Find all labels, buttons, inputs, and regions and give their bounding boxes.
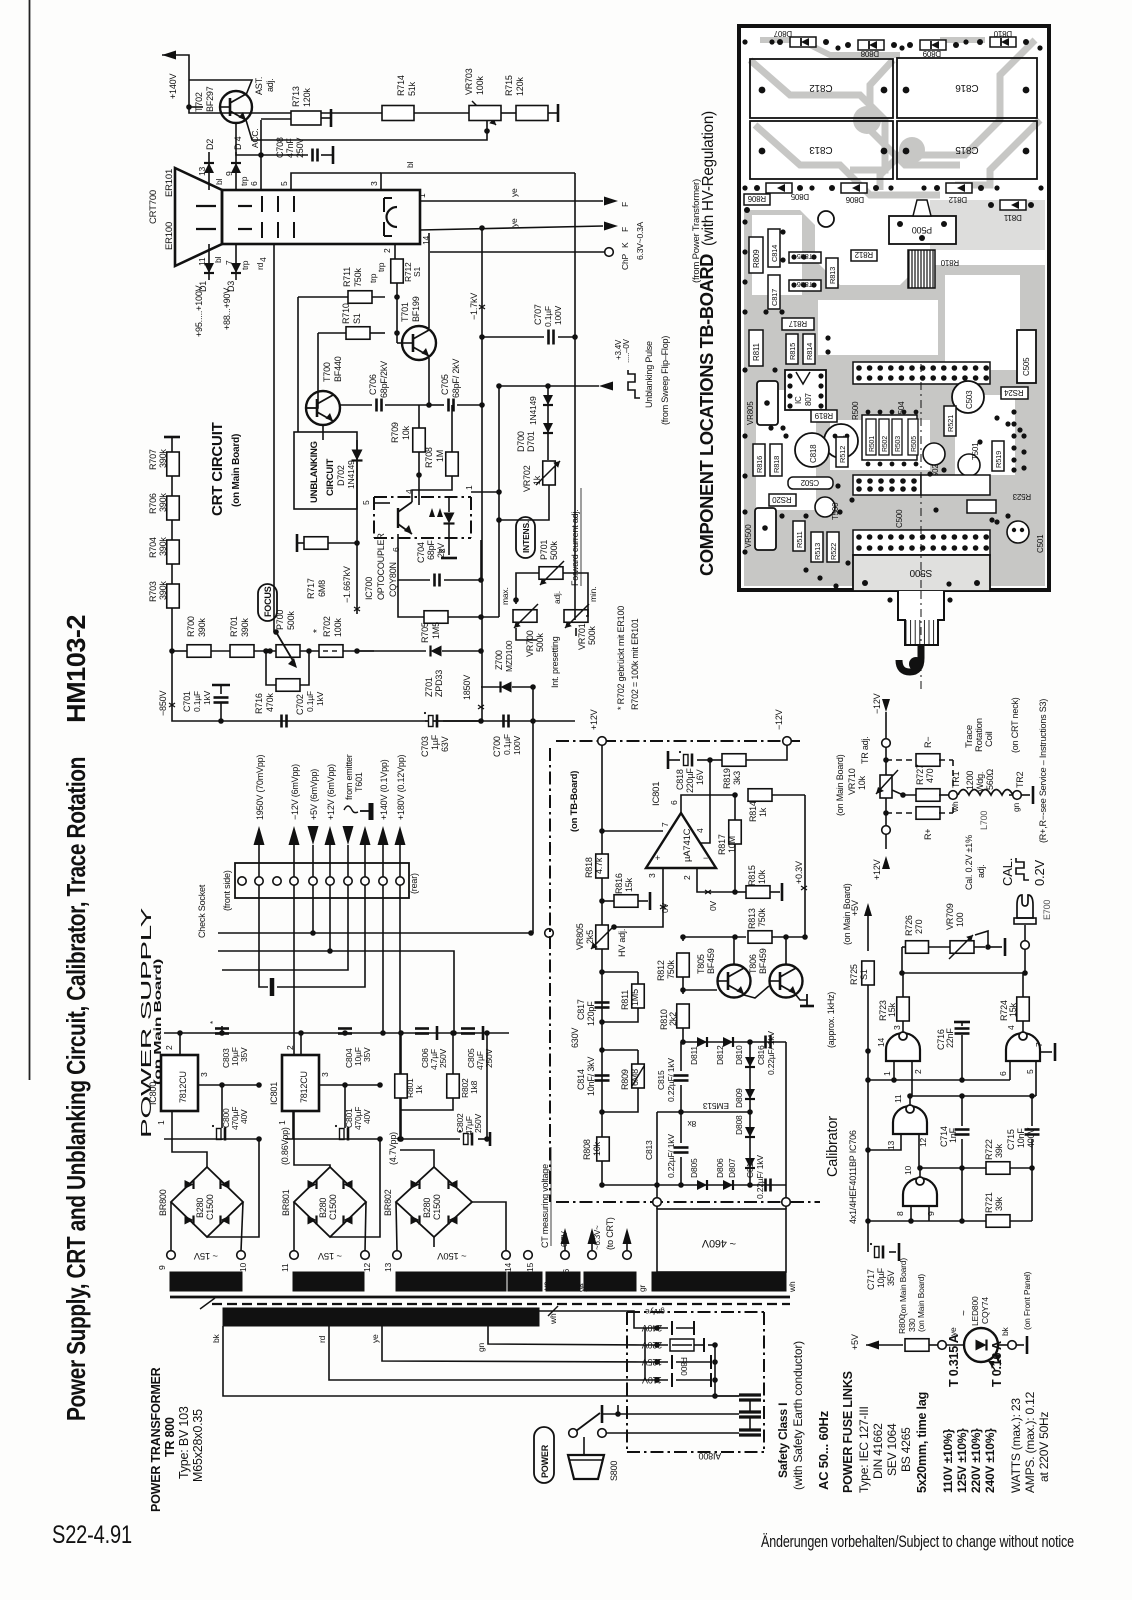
PCB R513	[811, 532, 823, 562]
svg-text:C503: C503	[965, 390, 974, 409]
C813 wire	[656, 1112, 658, 1185]
svg-text:(R+,R−-see Service – Instru: (R+,R−-see Service – Instructions S3)	[1038, 699, 1048, 843]
svg-text:~6.3V~: ~6.3V~	[593, 1225, 602, 1250]
resistor R814	[748, 789, 772, 802]
+12V rail into opamp	[601, 745, 603, 854]
svg-text:R726: R726	[904, 915, 914, 936]
svg-text:0.22µF/ 1kV: 0.22µF/ 1kV	[766, 1031, 776, 1075]
op-amp IC801 triangle	[646, 813, 716, 868]
NAND gate B	[1006, 1033, 1040, 1061]
svg-text:R511: R511	[795, 531, 804, 548]
socket wire +140V down	[382, 885, 384, 1033]
svg-text:3: 3	[369, 181, 379, 186]
PCB white bar right of row2	[921, 475, 990, 495]
capacitor C705	[429, 404, 444, 406]
svg-text:C814: C814	[770, 245, 779, 262]
resistor R701	[211, 650, 230, 652]
svg-text:10nF/ 3kV: 10nF/ 3kV	[586, 1057, 596, 1096]
P700 wiper	[273, 629, 279, 635]
svg-text:max.: max.	[500, 587, 510, 605]
svg-text:3: 3	[320, 1072, 330, 1077]
svg-text:40V: 40V	[239, 1109, 249, 1124]
svg-text:0.2V: 0.2V	[1032, 860, 1047, 886]
0V rail mid	[285, 1138, 380, 1140]
svg-text:T702: T702	[194, 92, 204, 112]
PCB capacitor box C813	[750, 121, 893, 179]
svg-text:R702 = 100k mit ER101: R702 = 100k mit ER101	[630, 618, 640, 710]
svg-text:C707: C707	[533, 304, 543, 325]
resistor R817	[734, 795, 736, 820]
svg-text:10nF: 10nF	[1016, 1128, 1026, 1148]
svg-text:C715: C715	[1006, 1129, 1016, 1150]
diode D702	[356, 440, 358, 470]
svg-text:120k: 120k	[515, 77, 525, 96]
BR802 wires	[400, 1150, 434, 1167]
PCB resistor R806	[744, 194, 770, 205]
cal bottom wire	[902, 972, 1025, 974]
svg-text:8x: 8x	[687, 1119, 697, 1129]
PCB resistor R813	[826, 258, 838, 288]
diode D805	[697, 1180, 707, 1190]
svg-text:ER101: ER101	[164, 169, 175, 197]
svg-text:R706: R706	[148, 493, 158, 514]
svg-text:R806: R806	[747, 194, 766, 203]
svg-text:VR700: VR700	[525, 630, 535, 657]
LED800	[946, 1344, 964, 1346]
terminal 15	[524, 1251, 533, 1260]
svg-text:T700: T700	[322, 362, 332, 382]
svg-text:R711: R711	[342, 267, 352, 287]
svg-text:1: 1	[464, 485, 474, 490]
capacitor C806	[415, 1027, 429, 1030]
PCB white clearances in grey zone	[752, 215, 802, 295]
winding bar 11-12	[293, 1272, 364, 1291]
resistor R714	[382, 106, 414, 121]
resistor R710	[318, 332, 346, 334]
pot VR701	[564, 610, 588, 623]
svg-text:C705: C705	[440, 374, 450, 395]
svg-text:+5V: +5V	[850, 1334, 860, 1350]
svg-text:B280: B280	[422, 1198, 432, 1218]
svg-text:T806: T806	[748, 954, 758, 974]
svg-text:1M5: 1M5	[431, 622, 441, 639]
pot VR703	[473, 107, 497, 120]
svg-text:390k: 390k	[197, 618, 207, 637]
PCB scattered pads	[742, 39, 747, 44]
svg-text:120pF: 120pF	[586, 1001, 596, 1026]
svg-text:C814: C814	[576, 1069, 586, 1090]
fuse F800	[670, 1339, 694, 1351]
svg-text:400V: 400V	[1026, 1128, 1036, 1148]
svg-text:LED800: LED800	[970, 1296, 980, 1326]
IC800 pin1	[171, 1111, 173, 1139]
svg-text:2: 2	[164, 1045, 174, 1050]
svg-text:500k: 500k	[535, 633, 545, 652]
svg-text:T501: T501	[971, 442, 980, 460]
svg-text:35V: 35V	[362, 1047, 372, 1062]
svg-text:µA741C: µA741C	[682, 828, 693, 862]
winding bar 15	[508, 1272, 542, 1291]
svg-text:500k: 500k	[549, 541, 559, 560]
svg-text:15k: 15k	[887, 1002, 897, 1017]
svg-text:AST.: AST.	[254, 77, 264, 95]
cal bus	[867, 985, 869, 1221]
resistor R809 (6M8)	[602, 1049, 638, 1051]
svg-text:D807: D807	[727, 1158, 737, 1178]
svg-text:(with HV-Regulation): (with HV-Regulation)	[700, 111, 717, 246]
R- dashed branch	[886, 759, 917, 761]
svg-text:−12V (6mVpp): −12V (6mVpp)	[290, 764, 300, 820]
svg-text:C505: C505	[1022, 357, 1031, 376]
svg-text:bl: bl	[214, 178, 224, 185]
svg-text:COMPONENT LOCATIONS TB-BOARD: COMPONENT LOCATIONS TB-BOARD	[696, 254, 717, 576]
svg-text:POWER: POWER	[540, 1444, 550, 1478]
svg-text:trp: trp	[368, 273, 378, 283]
CRT pin 14 / ye wire	[420, 226, 603, 230]
resistor R810	[682, 990, 684, 994]
svg-text:C817: C817	[770, 289, 779, 306]
svg-text:S1: S1	[352, 313, 362, 324]
PCB T501	[958, 454, 980, 476]
unblanking bus	[356, 470, 358, 614]
T805 emitter link	[744, 986, 769, 998]
svg-text:C700: C700	[492, 736, 502, 757]
svg-text:RS20: RS20	[772, 495, 792, 504]
svg-text:C812: C812	[809, 82, 833, 93]
IC800 pin3	[198, 1084, 259, 1086]
svg-text:D812: D812	[948, 195, 967, 204]
svg-text:ChP: ChP	[620, 254, 630, 270]
wire to bus	[343, 650, 374, 652]
svg-text:10µF: 10µF	[876, 1267, 886, 1288]
svg-text:C703: C703	[420, 736, 430, 757]
+15V rail	[164, 1032, 509, 1034]
unblanking circuit label box	[294, 432, 357, 509]
PCB diode D807	[790, 37, 816, 47]
svg-text:68pF/ 2kV: 68pF/ 2kV	[451, 359, 461, 398]
node	[254, 650, 276, 652]
svg-text:Coil: Coil	[984, 731, 995, 747]
svg-text:~: ~	[959, 1310, 970, 1316]
0V rail left	[164, 1138, 259, 1140]
svg-text:+0.3V: +0.3V	[794, 861, 804, 884]
resistor R702 (dashed)	[319, 645, 343, 658]
svg-text:RS24: RS24	[1004, 388, 1024, 397]
wire junction	[418, 475, 420, 505]
INTENS pill	[516, 517, 535, 558]
resistor R802	[447, 1074, 460, 1098]
svg-text:11: 11	[280, 1263, 290, 1272]
svg-text:1: 1	[882, 1071, 892, 1076]
resistor R722	[986, 1162, 1010, 1175]
svg-text:R704: R704	[148, 537, 158, 558]
svg-text:14: 14	[503, 1262, 513, 1272]
T806 emitter to gnd	[796, 995, 807, 1000]
svg-text:(4.7Vpp): (4.7Vpp)	[388, 1132, 398, 1165]
mains wires join filter	[714, 1395, 716, 1397]
svg-text:R702: R702	[322, 616, 332, 637]
CRT pin 11	[208, 244, 210, 256]
svg-text:Z701: Z701	[424, 677, 434, 697]
+12V feed	[882, 856, 890, 869]
TB board boundary bottom	[556, 1201, 820, 1203]
svg-text:13: 13	[886, 1140, 896, 1150]
transistor T805	[718, 965, 751, 998]
svg-text:3: 3	[199, 1072, 209, 1077]
T701 emitter	[428, 358, 430, 405]
L700 coil	[958, 790, 1013, 796]
CRT pin 13	[208, 178, 210, 190]
svg-text:D811: D811	[689, 1046, 699, 1065]
svg-text:R512: R512	[838, 446, 847, 463]
resistor R715	[516, 106, 548, 121]
svg-text:AC 50... 60Hz: AC 50... 60Hz	[816, 1410, 831, 1490]
wire py951	[218, 951, 454, 1033]
svg-text:470: 470	[925, 768, 935, 783]
socket signal 1950V	[254, 826, 265, 845]
primary lead rd	[329, 1326, 645, 1380]
node	[300, 650, 320, 652]
PCB R524	[1001, 387, 1028, 399]
T702 emitter wire	[189, 80, 252, 95]
svg-text:adj.: adj.	[265, 78, 275, 92]
svg-text:Cal. 0.2V ±1%: Cal. 0.2V ±1%	[964, 835, 974, 890]
diode Z700	[481, 686, 500, 688]
svg-text:(front side): (front side)	[222, 870, 232, 911]
svg-text:+88...+90V: +88...+90V	[222, 288, 232, 330]
switch knob	[583, 1437, 585, 1455]
svg-text:390k: 390k	[158, 581, 168, 600]
PCB R519	[992, 441, 1004, 471]
svg-text:C812: C812	[745, 1158, 755, 1178]
socket signal +12V	[325, 826, 336, 845]
svg-text:0.22µF/ 1kV: 0.22µF/ 1kV	[666, 1134, 676, 1178]
node on ye wire	[479, 225, 485, 231]
svg-text:220V ±10%}: 220V ±10%}	[969, 1428, 983, 1493]
transistor T700	[306, 391, 340, 425]
svg-text:rd: rd	[317, 1335, 327, 1343]
winding bar CRT heater	[584, 1272, 636, 1291]
diode D811	[697, 1037, 707, 1047]
svg-text:C815: C815	[656, 1070, 666, 1090]
svg-text:R809: R809	[620, 1069, 630, 1090]
svg-text:TR adj.: TR adj.	[860, 736, 870, 764]
svg-text:T 0.315 A: T 0.315 A	[947, 1334, 961, 1387]
svg-text:+12V: +12V	[872, 859, 882, 880]
svg-text:BF459: BF459	[706, 948, 716, 974]
svg-text:R500: R500	[851, 401, 860, 420]
svg-text:R513: R513	[813, 543, 822, 560]
PCB T805 pads	[789, 252, 821, 263]
svg-text:S22-4.91: S22-4.91	[52, 1521, 132, 1549]
R814 to down bus	[804, 795, 806, 937]
svg-text:R800: R800	[897, 1314, 907, 1334]
pin3 wire	[662, 868, 664, 908]
svg-text:3: 3	[647, 873, 657, 878]
svg-text:51k: 51k	[407, 81, 417, 96]
T700 emitter into unblanking	[322, 425, 324, 440]
resistor R813	[732, 934, 738, 940]
LED terminal	[929, 1344, 938, 1346]
resistor R721	[986, 1215, 1010, 1228]
svg-text:P500: P500	[912, 225, 932, 235]
svg-text:6: 6	[391, 547, 401, 552]
node R712	[396, 283, 398, 343]
svg-text:CRT CIRCUIT: CRT CIRCUIT	[209, 422, 226, 516]
svg-text:bk: bk	[1000, 1326, 1010, 1336]
svg-text:T701: T701	[400, 302, 410, 322]
svg-text:7812CU: 7812CU	[178, 1071, 188, 1103]
svg-text:D805: D805	[790, 192, 809, 201]
socket signal +180V	[395, 826, 406, 845]
transformer core lines	[170, 1296, 790, 1299]
PCB capacitor box C815	[897, 121, 1037, 179]
svg-text:F: F	[620, 227, 630, 232]
IC800 pin2	[179, 1033, 181, 1055]
svg-text:1N4149: 1N4149	[528, 396, 538, 425]
svg-text:BF297: BF297	[205, 86, 215, 112]
terminal ChP	[430, 251, 604, 253]
svg-text:10k: 10k	[757, 869, 767, 884]
diode D2	[208, 152, 210, 178]
svg-text:VR805: VR805	[746, 401, 755, 425]
svg-text:500k: 500k	[286, 611, 296, 630]
svg-text:R505: R505	[911, 436, 918, 452]
svg-text:47nF: 47nF	[285, 138, 295, 158]
left HV column	[601, 949, 603, 1185]
PCB circle pad	[818, 211, 834, 227]
svg-text:R727: R727	[915, 764, 925, 785]
svg-text:1kV: 1kV	[202, 690, 212, 705]
PCB R520	[769, 494, 796, 506]
py1221 wire	[868, 1220, 986, 1222]
VR805 wiper wire	[614, 908, 663, 927]
svg-text:gr: gr	[637, 1284, 647, 1292]
svg-text:R811: R811	[752, 343, 761, 361]
capacitor C704b	[433, 574, 436, 587]
gate D inputs	[910, 1206, 912, 1221]
svg-text:750k: 750k	[757, 908, 767, 927]
svg-text:22nF: 22nF	[945, 1028, 955, 1048]
primary lead bk	[223, 1326, 739, 1396]
svg-text:UNBLANKING: UNBLANKING	[309, 441, 320, 503]
svg-text:R713: R713	[291, 86, 301, 107]
pot VR805	[596, 925, 609, 949]
transistor T806	[770, 965, 803, 998]
capacitor C800	[221, 1085, 223, 1128]
VR703 wiper to T702 collector	[246, 120, 487, 140]
-12V entry	[783, 737, 792, 746]
socket wire +5V down	[312, 885, 314, 933]
TR2 end bar	[1021, 794, 1030, 796]
svg-text:0V: 0V	[708, 900, 718, 911]
diode D4	[235, 152, 237, 178]
svg-text:Power Supply, CRT and Unblanki: Power Supply, CRT and Unblanking Circuit…	[61, 757, 91, 1421]
svg-text:C817: C817	[576, 999, 586, 1020]
svg-text:R502: R502	[882, 436, 889, 452]
svg-text:INTENS.: INTENS.	[521, 521, 531, 553]
svg-text:D805: D805	[689, 1158, 699, 1178]
svg-text:1: 1	[277, 1120, 287, 1125]
resistor R727	[916, 789, 940, 802]
svg-text:ZPD33: ZPD33	[434, 670, 444, 697]
svg-text:CAL.: CAL.	[1000, 858, 1015, 886]
svg-text:1M: 1M	[435, 450, 445, 462]
svg-text:BF199: BF199	[411, 296, 421, 322]
svg-text:BF459: BF459	[758, 948, 768, 974]
svg-text:1k: 1k	[414, 1084, 424, 1094]
svg-text:35V: 35V	[886, 1270, 896, 1286]
svg-text:+: +	[655, 853, 660, 863]
svg-text:D 4: D 4	[233, 136, 243, 150]
svg-text:CIRCUIT: CIRCUIT	[325, 458, 336, 496]
svg-text:4.7k: 4.7k	[594, 857, 604, 874]
PCB T500	[815, 497, 835, 517]
diodes D700 D701	[547, 386, 549, 460]
svg-text:D808: D808	[734, 1115, 744, 1135]
svg-text:(on CRT neck): (on CRT neck)	[1010, 697, 1020, 753]
svg-text:C818: C818	[675, 769, 685, 790]
socket signal -12V	[289, 826, 300, 845]
svg-text:220µF: 220µF	[685, 768, 695, 793]
IC801 pin1	[292, 1111, 294, 1139]
svg-text:VR702: VR702	[522, 465, 532, 492]
pot VR710	[880, 775, 892, 798]
svg-text:0.1µF: 0.1µF	[543, 306, 553, 327]
diode D808	[749, 1112, 751, 1185]
diode D812	[723, 1037, 733, 1047]
terminal TR1	[949, 791, 958, 800]
svg-text:C701: C701	[182, 691, 192, 712]
PCB C504 circle	[824, 424, 858, 458]
CRT pin 9	[235, 178, 237, 190]
diode D809	[745, 1089, 755, 1099]
svg-text:Check Socket: Check Socket	[197, 884, 207, 938]
PCB VR500	[755, 508, 776, 550]
resistor R815	[735, 891, 746, 893]
svg-text:R810: R810	[940, 258, 959, 267]
pin6 output	[681, 795, 735, 813]
Z700 node to TB	[532, 721, 534, 933]
T806 collector	[785, 937, 787, 964]
svg-text:D808: D808	[860, 49, 879, 58]
svg-text:+140V (0.1Vpp): +140V (0.1Vpp)	[379, 759, 389, 820]
NAND gate A	[886, 1033, 920, 1061]
VR710 wiper to R727	[900, 792, 906, 798]
svg-text:2k2: 2k2	[668, 1012, 678, 1026]
resistor R811	[602, 971, 638, 973]
PCB right dots column	[1011, 409, 1016, 414]
svg-text:1N4149: 1N4149	[346, 460, 356, 489]
svg-text:390k: 390k	[240, 618, 250, 637]
capacitor C803	[221, 1026, 223, 1033]
svg-text:D806: D806	[845, 195, 864, 204]
capacitor C707	[479, 334, 485, 340]
AI800 dashdot enclosure	[627, 1311, 764, 1313]
svg-text:68pF/2kV: 68pF/2kV	[379, 361, 389, 398]
svg-text:6: 6	[998, 1071, 1008, 1076]
PCB diode D810	[990, 37, 1016, 47]
resistor R711	[298, 296, 385, 298]
svg-text:C702: C702	[295, 694, 305, 715]
svg-text:C706: C706	[368, 374, 378, 395]
svg-text:390k: 390k	[158, 537, 168, 556]
capacitor C717	[867, 1221, 869, 1252]
PCB VR805	[757, 381, 778, 425]
VR709 wiper node	[974, 946, 985, 948]
svg-text:R521: R521	[946, 415, 955, 432]
pin4 wire	[700, 760, 710, 843]
